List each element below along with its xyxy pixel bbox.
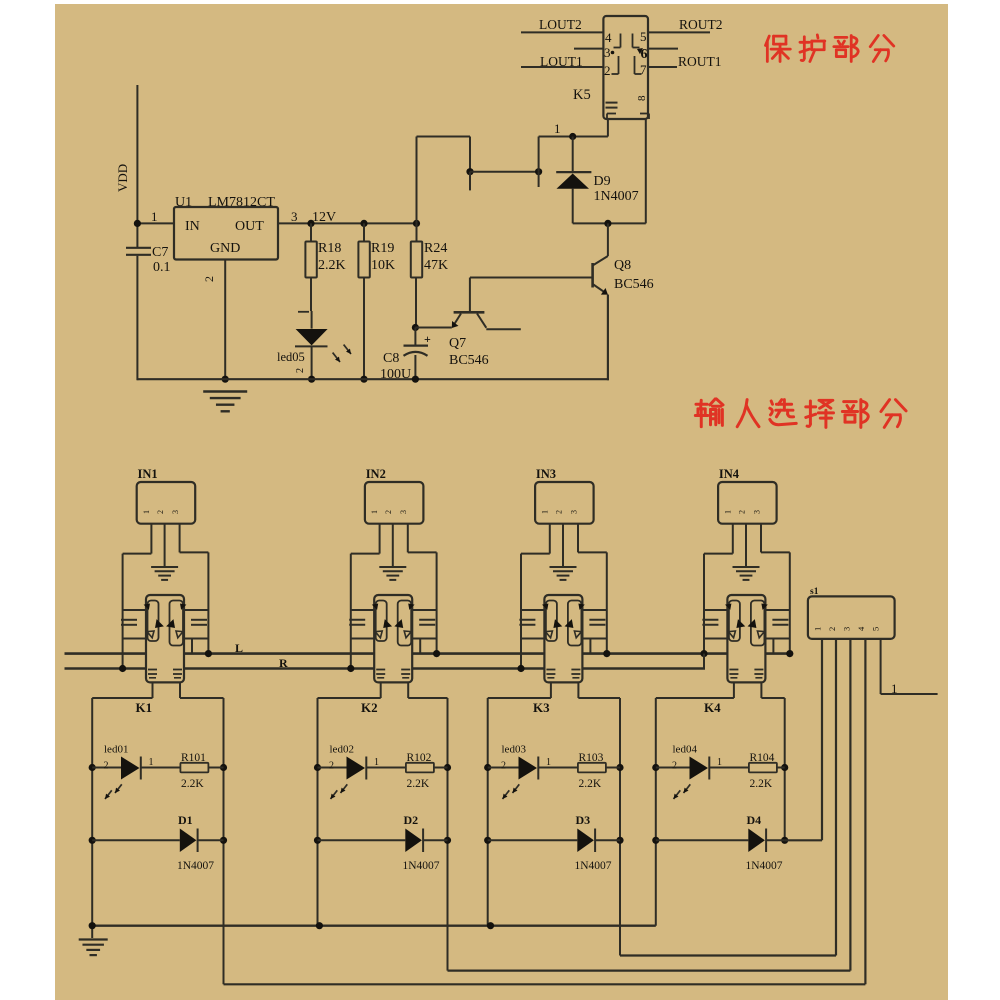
svg-text:ROUT2: ROUT2 xyxy=(679,17,723,32)
wire R24 to Q7 emitter xyxy=(412,324,419,331)
svg-text:U1: U1 xyxy=(175,195,192,210)
wire VDD vertical xyxy=(136,85,138,247)
connector s1 xyxy=(808,596,895,639)
svg-text:1: 1 xyxy=(142,510,151,514)
svg-text:2: 2 xyxy=(104,761,109,772)
left rail ch3 xyxy=(520,554,522,669)
K5 internal contacts xyxy=(620,34,622,48)
wire U1 OUT 12V rail xyxy=(278,222,417,224)
channel box right side xyxy=(619,698,621,956)
resistor R19 xyxy=(360,220,367,227)
svg-text:2: 2 xyxy=(202,276,216,282)
ground symbol IN3 xyxy=(550,566,577,568)
left rail ch2 xyxy=(350,554,352,669)
svg-text:2.2K: 2.2K xyxy=(181,778,204,790)
svg-text:1N4007: 1N4007 xyxy=(403,860,440,872)
led03 arrows xyxy=(503,790,510,799)
ground symbol bottom left xyxy=(91,926,93,938)
svg-text:Q8: Q8 xyxy=(614,258,631,273)
svg-text:IN3: IN3 xyxy=(536,467,556,481)
svg-text:Q7: Q7 xyxy=(449,336,466,351)
relay K3 coil xyxy=(546,669,555,671)
channel box left side xyxy=(655,698,657,926)
relay K1 coil xyxy=(148,669,157,671)
relay K4 coil xyxy=(729,669,738,671)
svg-text:3: 3 xyxy=(399,510,408,514)
svg-text:2: 2 xyxy=(827,627,837,631)
left rail ch4 xyxy=(703,554,705,654)
svg-text:2: 2 xyxy=(554,510,563,514)
svg-text:1N4007: 1N4007 xyxy=(594,189,639,204)
svg-text:D3: D3 xyxy=(576,813,591,827)
diode D3 1N4007 xyxy=(484,837,491,844)
svg-text:OUT: OUT xyxy=(235,219,264,234)
relay K1 contact stubs xyxy=(123,609,146,611)
title 输入选择部分 xyxy=(696,403,707,406)
svg-text:3: 3 xyxy=(171,510,180,514)
led01 arrows xyxy=(105,790,112,799)
svg-text:LM7812CT: LM7812CT xyxy=(208,195,275,210)
svg-text:ROUT1: ROUT1 xyxy=(678,54,722,69)
svg-text:1: 1 xyxy=(723,510,732,514)
svg-text:s1: s1 xyxy=(810,587,819,597)
IN2 wires xyxy=(379,524,381,554)
resistor R24 xyxy=(413,220,420,227)
svg-text:IN1: IN1 xyxy=(138,467,158,481)
diode D1 1N4007 xyxy=(89,837,96,844)
svg-text:100U: 100U xyxy=(380,367,411,382)
diode D2 1N4007 xyxy=(314,837,321,844)
cap marks ch2 xyxy=(349,619,365,621)
svg-text:D2: D2 xyxy=(404,813,419,827)
svg-text:3: 3 xyxy=(604,45,611,60)
wire D9 to Q8 collector node xyxy=(573,222,646,224)
svg-text:2: 2 xyxy=(501,761,506,772)
svg-text:5: 5 xyxy=(871,627,881,631)
resistor R18 xyxy=(307,220,314,227)
svg-text:K4: K4 xyxy=(704,700,721,715)
svg-text:R19: R19 xyxy=(371,241,394,256)
svg-text:1: 1 xyxy=(374,757,379,768)
channel box left side xyxy=(317,698,319,926)
svg-text:D4: D4 xyxy=(747,813,762,827)
svg-text:IN2: IN2 xyxy=(366,467,386,481)
led02 arrows xyxy=(331,790,338,799)
right rail ch4 xyxy=(789,552,791,653)
svg-text:led04: led04 xyxy=(673,744,698,756)
svg-text:C7: C7 xyxy=(152,245,168,260)
svg-text:2.2K: 2.2K xyxy=(579,778,602,790)
svg-text:K1: K1 xyxy=(136,700,153,715)
relay K2 pins to box xyxy=(380,682,382,698)
svg-text:1N4007: 1N4007 xyxy=(177,860,214,872)
svg-text:2: 2 xyxy=(295,368,306,373)
svg-text:R24: R24 xyxy=(424,241,447,256)
LED led01 xyxy=(89,764,96,771)
ground symbol IN4 xyxy=(733,566,760,568)
left rail ch1 xyxy=(122,554,124,669)
svg-text:1: 1 xyxy=(370,510,379,514)
right rail ch1 xyxy=(207,552,209,653)
relay K2 coil xyxy=(376,669,385,671)
relay K3 pins to box xyxy=(550,682,552,698)
svg-text:1: 1 xyxy=(149,757,154,768)
cap marks ch1 xyxy=(121,619,137,621)
svg-text:led05: led05 xyxy=(277,350,305,364)
svg-text:D1: D1 xyxy=(178,813,193,827)
relay K2 contact stubs xyxy=(351,609,374,611)
right rail ch3 xyxy=(606,552,608,653)
svg-text:2: 2 xyxy=(672,761,677,772)
IN1 wires xyxy=(150,524,152,554)
relay K3 xyxy=(544,595,582,682)
svg-text:led03: led03 xyxy=(502,744,527,756)
svg-text:8: 8 xyxy=(636,95,648,101)
IN4 wires xyxy=(732,524,734,554)
svg-text:1: 1 xyxy=(717,757,722,768)
wire C7 to ground bus xyxy=(136,256,138,380)
svg-text:LOUT2: LOUT2 xyxy=(539,17,582,32)
svg-text:47K: 47K xyxy=(424,258,448,273)
node junction xyxy=(466,168,473,175)
capacitor C7 xyxy=(126,247,151,249)
svg-text:K5: K5 xyxy=(573,87,591,103)
led05 light arrows xyxy=(333,353,340,362)
channel box right side xyxy=(447,698,449,971)
LED led04 xyxy=(652,764,659,771)
ground symbol IN2 xyxy=(379,566,406,568)
relay K4 pins to box xyxy=(733,682,735,698)
svg-text:2: 2 xyxy=(604,63,611,78)
channel box left side xyxy=(487,698,489,926)
ground symbol IN1 xyxy=(151,566,178,568)
led04 arrows xyxy=(674,790,681,799)
svg-text:K3: K3 xyxy=(533,700,550,715)
svg-text:3: 3 xyxy=(842,627,852,631)
channel box right side xyxy=(223,698,225,984)
input connector IN1 xyxy=(137,482,196,524)
LED led02 xyxy=(314,764,321,771)
svg-text:BC546: BC546 xyxy=(614,277,654,292)
svg-text:5: 5 xyxy=(640,29,647,44)
svg-text:1N4007: 1N4007 xyxy=(746,860,783,872)
svg-text:3: 3 xyxy=(752,510,761,514)
svg-text:IN4: IN4 xyxy=(719,467,740,481)
channel common bus xyxy=(92,925,656,927)
svg-text:2: 2 xyxy=(384,510,393,514)
relay K4 xyxy=(727,595,765,682)
diode D9 1N4007 xyxy=(572,137,574,173)
svg-text:10K: 10K xyxy=(371,258,395,273)
channel box K1 top edge xyxy=(92,697,152,699)
input connector IN2 xyxy=(365,482,424,524)
svg-text:1: 1 xyxy=(540,510,549,514)
svg-text:1: 1 xyxy=(151,209,158,224)
channel box left side xyxy=(91,698,93,926)
cap marks ch3 xyxy=(519,619,535,621)
relay K1 xyxy=(146,595,184,682)
svg-text:3: 3 xyxy=(291,209,298,224)
channel box K3 top edge xyxy=(488,697,551,699)
transistor Q7 BC546 xyxy=(469,278,471,312)
svg-text:2.2K: 2.2K xyxy=(318,258,346,273)
output wires to connector xyxy=(224,983,866,985)
IN3 wires xyxy=(549,524,551,554)
cap marks ch4 xyxy=(702,619,718,621)
connector pin 5 wire to node 1 xyxy=(880,639,882,694)
svg-text:1: 1 xyxy=(891,681,898,696)
input connector IN3 xyxy=(535,482,594,524)
relay K5 xyxy=(603,16,648,119)
wire D4 row to connector xyxy=(785,839,822,841)
ground symbol below U1 xyxy=(203,390,247,392)
voltage regulator U1 LM7812CT xyxy=(174,207,278,260)
svg-text:D9: D9 xyxy=(594,174,611,189)
svg-text:led02: led02 xyxy=(330,744,354,756)
svg-text:GND: GND xyxy=(210,241,240,256)
svg-text:1: 1 xyxy=(813,627,823,631)
channel box right side xyxy=(784,698,786,840)
svg-text:IN: IN xyxy=(185,219,200,234)
svg-text:0.1: 0.1 xyxy=(153,260,171,275)
channel box K4 top edge xyxy=(656,697,734,699)
K5 coil xyxy=(606,102,618,104)
relay K3 contact stubs xyxy=(521,609,544,611)
svg-text:3: 3 xyxy=(569,510,578,514)
channel box K2 top edge xyxy=(318,697,381,699)
LED led05 xyxy=(298,311,309,313)
diode D4 1N4007 xyxy=(652,837,659,844)
relay K4 contact stubs xyxy=(704,609,727,611)
svg-text:2.2K: 2.2K xyxy=(750,778,773,790)
svg-text:C8: C8 xyxy=(383,351,399,366)
right rail ch2 xyxy=(436,552,438,653)
svg-text:2.2K: 2.2K xyxy=(407,778,430,790)
svg-text:BC546: BC546 xyxy=(449,353,489,368)
svg-text:1: 1 xyxy=(546,757,551,768)
svg-text:R18: R18 xyxy=(318,241,341,256)
ground bus wire xyxy=(137,378,609,380)
wire to relay coil pin 1 xyxy=(538,137,540,172)
svg-text:4: 4 xyxy=(605,30,612,45)
svg-text:led01: led01 xyxy=(104,744,128,756)
svg-text:2: 2 xyxy=(329,761,334,772)
wire contact link xyxy=(470,171,539,173)
transistor Q8 BC546 xyxy=(607,223,609,256)
title 保护部分 xyxy=(765,36,769,45)
relay K5 coil pin 8 wire xyxy=(645,119,647,223)
input connector IN4 xyxy=(718,482,777,524)
svg-text:K2: K2 xyxy=(361,700,378,715)
wire Q7 collector stub xyxy=(486,328,521,330)
pin 3 stub xyxy=(574,48,603,50)
wire VDD to U1 IN xyxy=(137,222,174,224)
svg-text:1N4007: 1N4007 xyxy=(575,860,612,872)
svg-text:2: 2 xyxy=(737,510,746,514)
relay K1 pins to box xyxy=(152,682,154,698)
wire U1 GND down xyxy=(224,260,226,381)
wire 12V rail up to relay contact net xyxy=(416,137,418,224)
svg-text:2: 2 xyxy=(156,510,165,514)
pin 6 stub xyxy=(648,48,678,50)
LED led03 xyxy=(484,764,491,771)
svg-text:VDD: VDD xyxy=(115,164,130,192)
svg-text:1: 1 xyxy=(554,121,561,136)
relay K2 xyxy=(374,595,412,682)
svg-text:+: + xyxy=(424,332,431,346)
